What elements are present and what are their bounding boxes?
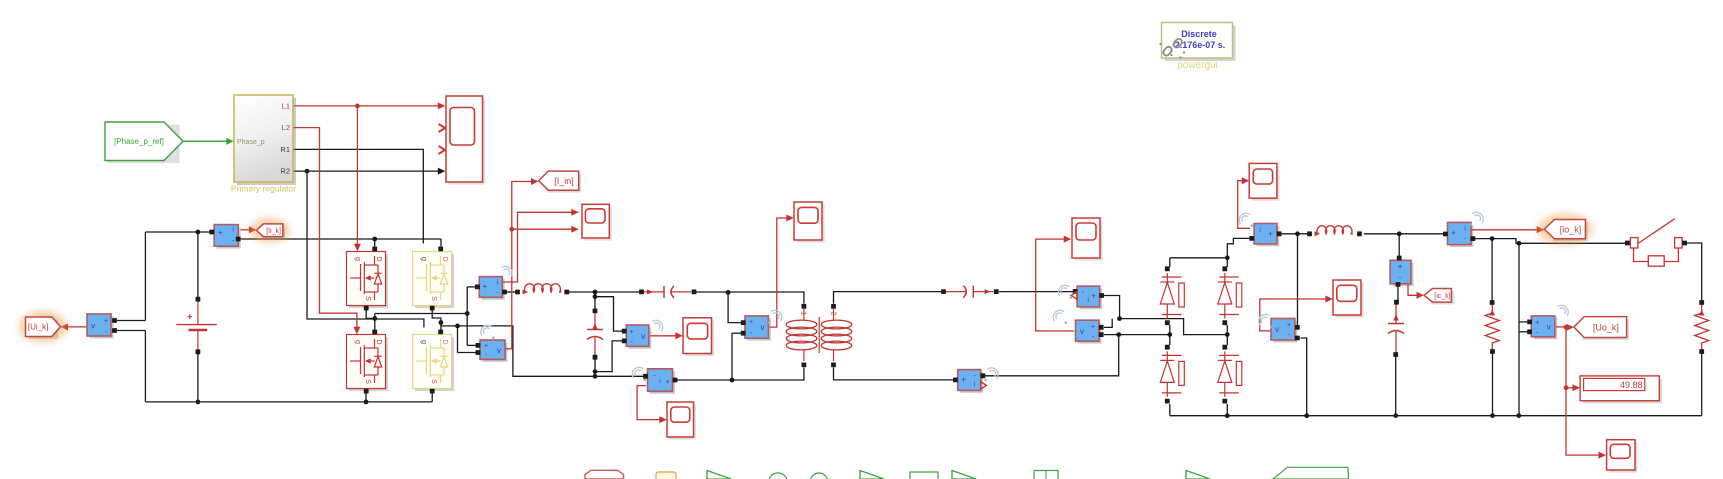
svg-text:S: S [364,296,373,301]
svg-text:49.88: 49.88 [1620,380,1643,390]
svg-text:+: + [1287,322,1291,329]
svg-text:[Ii_k]: [Ii_k] [266,228,281,235]
svg-text:[I_in]: [I_in] [554,176,574,186]
svg-text:[Ui_k]: [Ui_k] [28,323,48,332]
svg-text:g: g [354,257,363,261]
svg-text:+: + [1091,292,1096,301]
svg-text:+: + [630,329,634,336]
svg-text:v: v [91,322,95,331]
svg-text:v: v [641,332,645,341]
svg-text:+: + [484,343,488,350]
svg-text:v: v [497,346,501,355]
svg-text:D: D [375,256,384,261]
svg-text:[ic_k]: [ic_k] [1434,293,1450,300]
svg-text:D: D [441,339,450,344]
svg-text:D: D [441,256,450,261]
svg-text:v: v [1080,327,1084,336]
svg-text:v: v [1275,325,1279,334]
svg-text:S: S [430,379,439,384]
svg-text:+: + [665,379,669,386]
svg-text:+: + [1268,230,1273,239]
svg-text:L1: L1 [282,102,290,111]
svg-text:D: D [375,339,384,344]
svg-text:2: 2 [830,312,837,316]
svg-text:g: g [354,340,363,344]
svg-text:+: + [749,319,753,326]
svg-text:[Phase_p_ref]: [Phase_p_ref] [114,137,164,146]
svg-text:powergui: powergui [1177,60,1218,71]
svg-text:v: v [761,323,765,332]
svg-text:+: + [218,228,223,237]
svg-text:+: + [482,282,487,291]
svg-text:[Uo_k]: [Uo_k] [1593,322,1619,332]
svg-text:g: g [420,257,429,261]
svg-text:+: + [1451,228,1456,237]
svg-text:Discrete: Discrete [1181,29,1217,39]
svg-text:+: + [104,318,108,325]
svg-text:+: + [1091,324,1095,331]
svg-text:+: + [961,375,966,384]
svg-text:[io_k]: [io_k] [1560,224,1582,234]
svg-text:+: + [1535,319,1539,326]
svg-text:Primary regulator: Primary regulator [231,184,296,194]
svg-text:+: + [1398,262,1403,271]
svg-text:S: S [364,379,373,384]
svg-text:1: 1 [800,312,807,316]
svg-text:S: S [430,296,439,301]
svg-text:L2: L2 [282,123,290,132]
svg-text:g: g [420,340,429,344]
svg-text:R1: R1 [280,145,290,154]
svg-text:Phase_p: Phase_p [237,139,265,146]
svg-text:R2: R2 [280,167,290,176]
svg-text:v: v [1547,322,1551,331]
